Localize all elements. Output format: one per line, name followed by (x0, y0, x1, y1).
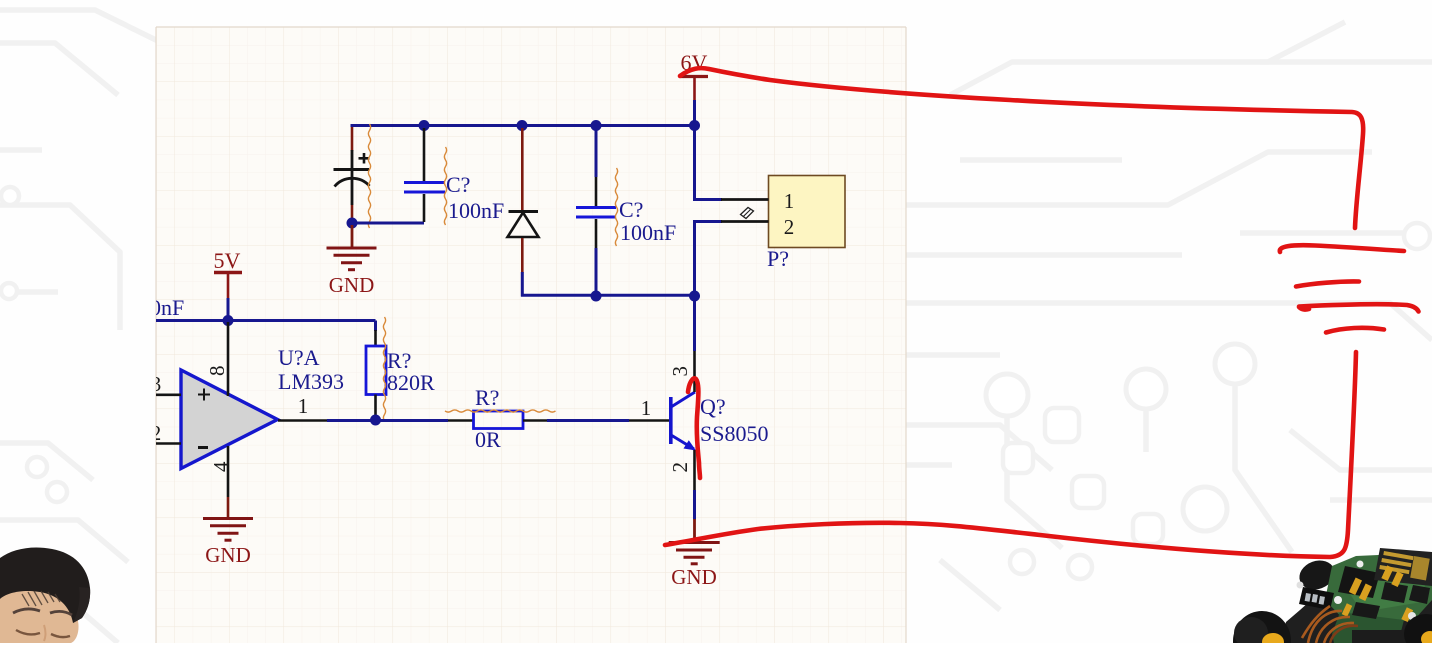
op-amp U1 LM393 (181, 370, 278, 469)
junction C1 bottom (347, 218, 358, 229)
ground GND near U1 (203, 519, 253, 541)
wire bus to P? pin1 (693, 125, 722, 200)
error squiggle near C2 (444, 147, 446, 225)
svg-text:4: 4 (209, 461, 233, 472)
error squiggle near C3 (615, 168, 617, 246)
ground GND near Q1 (669, 543, 720, 564)
wire bottom bus to Q1 collector (693, 296, 696, 351)
svg-text:2: 2 (784, 215, 795, 239)
svg-text:C?: C? (446, 172, 470, 197)
svg-text:0R: 0R (475, 427, 501, 452)
svg-text:C?: C? (619, 197, 643, 222)
svg-text:2: 2 (668, 462, 692, 473)
junction C100nF-right top (591, 120, 602, 131)
no-ERC marker (eraser icon) on P? pin2 (741, 208, 754, 219)
battery plate 4 (1326, 328, 1384, 333)
junction diode top (517, 120, 528, 131)
transistor Q1 SS8050 (629, 351, 696, 490)
capacitor C2 100nF (left) (404, 128, 445, 222)
error squiggle near R2 (445, 410, 556, 412)
svg-text:1: 1 (641, 396, 652, 420)
red annotation: wire battery - to GND (665, 352, 1356, 557)
resistor R2 0R (448, 411, 547, 429)
wire top bus (351, 124, 695, 127)
svg-text:Q?: Q? (700, 394, 726, 419)
svg-text:100nF: 100nF (620, 220, 676, 245)
diode D1 (508, 128, 539, 273)
svg-text:P?: P? (767, 246, 789, 271)
ground GND near C1 (327, 248, 377, 270)
wire R2 to Q1 base (547, 419, 629, 422)
op-amp pin 1 output (278, 419, 327, 422)
wire U1 pin4 to ground (227, 497, 230, 518)
op-amp pin 4 (227, 446, 230, 497)
svg-text:U?A: U?A (278, 345, 320, 370)
svg-text:1: 1 (784, 189, 795, 213)
schematic sheet (156, 27, 906, 643)
svg-text:5V: 5V (214, 248, 241, 273)
webcam overlay: person (0, 547, 90, 643)
battery (hand-drawn) plate 1 (1280, 245, 1404, 252)
op-amp pin 8 (227, 322, 230, 396)
svg-text:8: 8 (205, 366, 229, 377)
svg-text:820R: 820R (387, 370, 435, 395)
resistor R1 820R (366, 330, 386, 419)
capacitor C1 electrolytic (334, 127, 370, 222)
capacitor C3 100nF (right) (576, 128, 616, 296)
op-amp pin 3 (150, 393, 181, 396)
battery plate 2 (1296, 281, 1359, 286)
svg-text:1: 1 (298, 394, 309, 418)
power port 6V (681, 50, 708, 100)
wire C1 to ground (351, 225, 354, 248)
junction P? column top (689, 120, 700, 131)
svg-text:GND: GND (205, 543, 251, 567)
junction 5V node (223, 315, 234, 326)
svg-text:100nF: 100nF (448, 198, 504, 223)
error squiggle near C1 (368, 124, 370, 228)
svg-text:LM393: LM393 (278, 369, 344, 394)
wire Q1 emitter to ground (693, 490, 696, 520)
svg-text:3: 3 (668, 366, 692, 377)
red annotation: wire 6V to battery + (680, 68, 1363, 228)
wire diode to bottom bus (521, 272, 695, 297)
battery plate 3 (1299, 304, 1419, 311)
red scribble on transistor emitter (688, 378, 700, 478)
photo: robot car (1233, 548, 1432, 648)
junction R1 bottom on output net (370, 415, 381, 426)
wire 5V to node (227, 298, 230, 320)
wire U1 output to R2 (327, 419, 448, 422)
wire 6V to top bus (693, 100, 696, 125)
connector P? (721, 176, 845, 248)
svg-text:SS8050: SS8050 (700, 421, 768, 446)
junction C3 bottom (591, 291, 602, 302)
power port 5V (214, 248, 242, 298)
wire C1 bottom to C2 bottom (352, 222, 424, 225)
svg-text:R?: R? (475, 385, 499, 410)
svg-text:GND: GND (329, 273, 375, 297)
op-amp pin 2 (150, 442, 181, 445)
error squiggle near R1 (383, 317, 385, 421)
junction transistor column bottom bus (689, 291, 700, 302)
wire net 100nF horizontal (150, 321, 376, 332)
svg-text:GND: GND (671, 565, 717, 589)
junction C100nF-left top (419, 120, 430, 131)
wire P? pin2 to bottom bus (695, 220, 723, 296)
